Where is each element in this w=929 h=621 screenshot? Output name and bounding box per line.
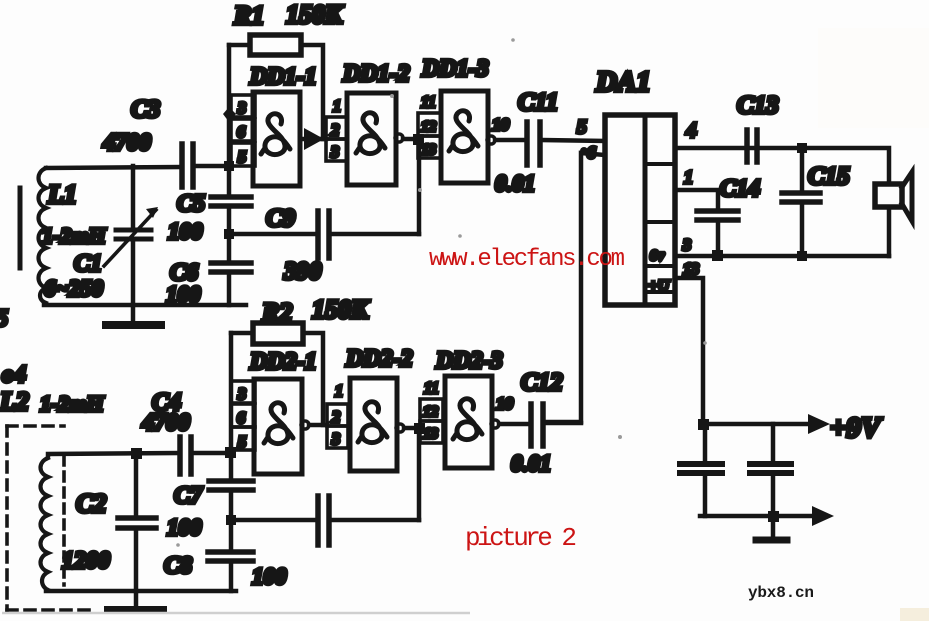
svg-text:0.01: 0.01 <box>511 451 551 476</box>
svg-text:DA1: DA1 <box>595 66 651 98</box>
svg-text:13: 13 <box>421 142 436 158</box>
wire : C4 to input bus of DD2-1 <box>193 451 231 456</box>
svg-text:L1: L1 <box>47 180 77 209</box>
svg-text:DD1-1: DD1-1 <box>249 64 317 90</box>
svg-text:10: 10 <box>492 115 510 134</box>
gate DD2-1 <box>231 349 317 474</box>
svg-text:picture 2: picture 2 <box>465 523 577 553</box>
svg-text:www.elecfans.com: www.elecfans.com <box>429 246 625 273</box>
capacitor C9 390 <box>224 205 419 285</box>
svg-text:13: 13 <box>423 426 438 442</box>
svg-text:o4: o4 <box>2 362 26 388</box>
gate DD1-2 <box>326 61 410 185</box>
wire : +9V rail with arrow <box>703 412 883 444</box>
capacitor C17 (filter) <box>750 424 791 540</box>
ferrite rod core bar of L1 <box>18 188 23 268</box>
gate DD1-1 <box>231 64 317 186</box>
gate DD2-2 <box>327 346 413 471</box>
gate DD1-3 <box>418 56 510 183</box>
wire : DD2-2 output to DD2-3 input <box>404 426 420 431</box>
svg-text:0.01: 0.01 <box>495 171 535 196</box>
svg-text:R2: R2 <box>261 298 292 327</box>
svg-text:1: 1 <box>684 167 693 187</box>
capacitor C8 100 <box>164 552 287 589</box>
svg-text:5: 5 <box>238 149 246 166</box>
wire : C6 to bottom rail <box>227 272 232 305</box>
capacitor C11 0.01 <box>495 89 605 196</box>
svg-text:DD2-1: DD2-1 <box>249 349 317 375</box>
svg-text:C12: C12 <box>521 369 563 396</box>
capacitor C7 100 <box>167 481 253 540</box>
ferrite core (dashed) of L2 <box>62 456 66 585</box>
capacitor C15 <box>782 143 850 261</box>
svg-text:5: 5 <box>238 434 246 451</box>
svg-text:6: 6 <box>237 124 245 141</box>
svg-text:C3: C3 <box>131 96 160 123</box>
svg-text:5: 5 <box>577 117 587 138</box>
wire : C7 to C8 <box>229 490 234 552</box>
wire : L2 top to C4 <box>48 453 178 455</box>
node : junction at DD1-3 input <box>413 134 424 145</box>
svg-text:1: 1 <box>335 383 343 400</box>
svg-text:4700: 4700 <box>141 410 190 436</box>
svg-text:1-2mH: 1-2mH <box>40 391 104 416</box>
wire : pin 6 down to C12 <box>545 147 605 422</box>
svg-text:ybx8.cn: ybx8.cn <box>748 584 814 602</box>
wire : C3 to input bus <box>195 164 231 169</box>
op-amp U1 : amplifier IC DA1 <box>577 66 699 305</box>
svg-text:C14: C14 <box>720 176 760 202</box>
wire : L1 top to C3 <box>46 167 181 168</box>
svg-text:150K: 150K <box>312 295 370 324</box>
resistor R1 150K <box>229 0 344 139</box>
svg-text:10: 10 <box>496 394 514 413</box>
wire : DD1-2 output to DD1-3 input <box>403 137 418 142</box>
svg-text:DD2-3: DD2-3 <box>435 348 503 374</box>
svg-text:6: 6 <box>237 410 245 427</box>
node : input bus of DD1-1 <box>223 45 236 197</box>
svg-text:5: 5 <box>0 306 8 332</box>
wire : pin 13 +U to +9V rail <box>675 278 703 424</box>
capacitor C16 (filter) <box>680 424 722 516</box>
svg-text:4700: 4700 <box>102 130 151 156</box>
svg-text:100: 100 <box>252 564 287 589</box>
node : input bus of DD2-1 <box>225 333 236 481</box>
capacitor C4 4700 <box>141 389 191 474</box>
speaker <box>875 172 912 256</box>
capacitor C14 (pin 1) <box>675 176 760 261</box>
svg-text:12: 12 <box>423 404 439 420</box>
svg-text:C1: C1 <box>74 251 102 277</box>
svg-text:100: 100 <box>166 282 201 307</box>
svg-text:3: 3 <box>331 431 340 448</box>
svg-text:C2: C2 <box>76 489 106 518</box>
svg-text:C8: C8 <box>164 553 192 579</box>
svg-text:DD1-2: DD1-2 <box>342 61 410 87</box>
svg-text:100: 100 <box>168 219 203 244</box>
svg-text:C13: C13 <box>737 92 779 119</box>
svg-text:DD2-2: DD2-2 <box>345 346 413 372</box>
svg-text:3: 3 <box>237 100 246 117</box>
ground (top channel) <box>106 305 161 325</box>
svg-text:390: 390 <box>283 258 322 285</box>
wire : pin 4 output to speaker <box>675 148 889 184</box>
wire : DD2-1 output to DD2-2 input <box>309 423 327 428</box>
svg-text:150K: 150K <box>286 0 344 29</box>
svg-text:11: 11 <box>424 380 439 397</box>
capacitor C10 (coupling, bottom) <box>226 496 419 545</box>
capacitor C13 <box>737 92 779 162</box>
wire : DD1-1 output with arrow <box>300 128 326 150</box>
svg-text:C15: C15 <box>808 163 850 190</box>
gate DD2-3 <box>420 348 514 468</box>
svg-text:C7: C7 <box>174 483 203 509</box>
svg-text:11: 11 <box>421 94 436 111</box>
svg-text:C9: C9 <box>266 205 296 232</box>
svg-text:1200: 1200 <box>62 548 110 574</box>
wire <box>2 612 470 615</box>
wire : 0V bottom rail to speaker <box>675 254 889 259</box>
wire : C5 to C6 <box>227 206 232 263</box>
svg-text:+9V: +9V <box>830 412 883 444</box>
svg-text:2: 2 <box>332 409 340 426</box>
resistor R2 150K <box>231 295 370 425</box>
ground (bottom channel) <box>108 591 163 610</box>
svg-text:2: 2 <box>331 122 339 139</box>
wire : up to DD2-2 output node <box>417 429 422 520</box>
capacitor C3 4700 <box>102 96 193 187</box>
svg-text:3: 3 <box>237 386 246 403</box>
svg-text:6~250: 6~250 <box>44 276 104 301</box>
svg-text:0v: 0v <box>650 248 665 264</box>
svg-text:+U: +U <box>648 278 670 294</box>
svg-text:R1: R1 <box>233 1 264 30</box>
capacitor C5 100 <box>168 191 251 244</box>
wire : ground rail with arrow <box>700 506 834 526</box>
inductor L1 (antenna coil) <box>39 168 107 303</box>
svg-text:12: 12 <box>421 119 437 135</box>
svg-text:13: 13 <box>683 261 699 278</box>
node : C2 top junction <box>131 448 142 459</box>
svg-text:3: 3 <box>682 237 691 254</box>
capacitor C2 1200 <box>62 454 156 591</box>
inductor L2 (antenna coil) <box>0 362 104 590</box>
svg-text:3: 3 <box>330 144 339 161</box>
svg-text:4: 4 <box>686 118 697 142</box>
svg-text:C5: C5 <box>177 191 205 217</box>
svg-text:L2: L2 <box>0 387 29 416</box>
capacitor C6 100 <box>166 260 251 307</box>
svg-text:C11: C11 <box>518 89 558 116</box>
capacitor C1 (variable, 6~250) <box>44 166 158 305</box>
node : +9V junction <box>698 419 709 430</box>
shield box (dashed) <box>7 426 92 612</box>
svg-text:DD1-3: DD1-3 <box>421 56 489 82</box>
svg-text:1: 1 <box>333 98 341 115</box>
wire : L1 bottom rail <box>44 303 246 305</box>
capacitor C12 0.01 <box>499 369 581 476</box>
svg-text:100: 100 <box>167 515 202 540</box>
wire : L2 bottom rail <box>46 590 236 591</box>
wire : C8 to bottom rail <box>229 561 234 591</box>
node : junction at DD2-3 input <box>414 423 425 434</box>
svg-text:1-2mH: 1-2mH <box>42 223 106 248</box>
wire : C9 up to DD1-2 output node <box>417 139 422 234</box>
